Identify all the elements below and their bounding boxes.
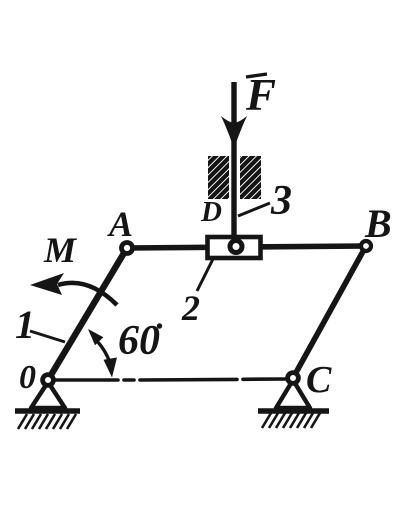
svg-text:C: C xyxy=(306,359,332,401)
pin support at C (triangle) xyxy=(276,380,310,408)
rod 3 (vertical through guide, into slider) xyxy=(231,82,236,238)
leader line for label 1 xyxy=(30,331,65,342)
ground hatching at C xyxy=(262,413,320,428)
svg-text:A: A xyxy=(107,204,133,244)
pin joint A xyxy=(122,243,133,254)
wire: dash-dot centerline O to C xyxy=(56,379,286,380)
link 1 (crank O-A) xyxy=(48,248,127,380)
leader line for label 2 xyxy=(197,259,213,291)
pin joint B xyxy=(361,241,371,251)
svg-text:1: 1 xyxy=(15,302,35,347)
svg-text:3: 3 xyxy=(270,178,292,224)
svg-text:B: B xyxy=(364,201,392,246)
ground hatching at O xyxy=(18,414,76,429)
svg-text:2: 2 xyxy=(181,288,200,328)
ground line at C xyxy=(258,408,329,414)
pin support at O (triangle) xyxy=(31,382,65,408)
fixed guide hatched block (left) xyxy=(208,156,229,199)
leader line for label 3 xyxy=(238,203,270,216)
pin joint D in slider xyxy=(230,241,242,253)
svg-text:60: 60 xyxy=(118,318,160,364)
svg-text:D: D xyxy=(200,196,222,228)
pin joint C xyxy=(288,373,299,384)
link 2 coupler bar A-B xyxy=(127,246,366,248)
svg-text:M: M xyxy=(43,230,78,270)
svg-text:0: 0 xyxy=(19,359,36,396)
link 4 (B-C) xyxy=(293,246,366,378)
60 degree angle arc with arrowheads xyxy=(97,341,110,363)
slider block 2 at D xyxy=(208,237,261,258)
moment M curved arrow xyxy=(58,283,117,305)
fixed guide hatched block (right) xyxy=(240,156,261,199)
force F arrowhead xyxy=(221,116,247,149)
pin joint O xyxy=(43,375,54,386)
ground line at O xyxy=(15,408,80,414)
